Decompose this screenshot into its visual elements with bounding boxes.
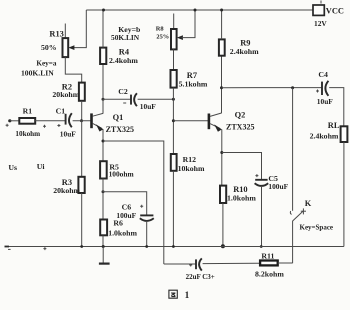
node rail R8 wiper (194, 9, 197, 12)
svg-text:50K.LIN: 50K.LIN (111, 33, 140, 42)
wire C5 to rail (261, 186, 263, 247)
svg-text:100K.LIN: 100K.LIN (21, 68, 54, 77)
ground rail bottom (5, 246, 344, 248)
svg-text:Q2: Q2 (235, 111, 246, 120)
resistor R9 (219, 39, 259, 57)
node rail R9 (220, 9, 223, 12)
wire collector node to C4 (222, 87, 322, 89)
svg-text:ZTX325: ZTX325 (106, 125, 134, 134)
resistor RL (310, 121, 348, 142)
resistor R7 (171, 70, 208, 89)
wire RL bottom to rail right end (343, 142, 345, 247)
capacitor C4 (316, 70, 333, 106)
svg-text:10kohm: 10kohm (178, 164, 205, 173)
svg-text:10uF: 10uF (140, 102, 157, 111)
node rail R6 (102, 245, 105, 248)
node emitter branch (102, 140, 105, 143)
wire VCC top rail (86, 9, 313, 11)
wire R13 bottom to R2 top (65, 57, 81, 83)
potentiometer R8 (156, 10, 195, 49)
svg-text:R13: R13 (49, 30, 63, 39)
resistor R3 (53, 177, 85, 195)
wire Q2 collector up (221, 56, 223, 113)
wire R9 top to rail (221, 10, 223, 39)
resistor R4 (100, 47, 138, 65)
svg-text:10uF: 10uF (60, 129, 77, 138)
node rail R4 (102, 9, 105, 12)
svg-text:R7: R7 (187, 71, 197, 80)
svg-text:2.4kohm: 2.4kohm (230, 47, 259, 56)
transistor Q2 (209, 111, 255, 132)
wire C3 to R11 (203, 262, 261, 264)
wire R2 bottom to base node (81, 101, 83, 121)
resistor R2 (52, 83, 84, 101)
wire Q2 base (173, 120, 208, 122)
wire C6 to rail (146, 221, 148, 247)
svg-text:12V: 12V (314, 19, 327, 28)
svg-text:C4: C4 (318, 70, 328, 79)
resistor R1 (15, 107, 40, 138)
wire R3 bottom to ground rail (81, 193, 83, 247)
wire rail left corner down to R13 wiper (71, 10, 87, 48)
svg-text:25%: 25% (156, 33, 169, 40)
label figure caption (169, 290, 190, 301)
wire emitter branch to C5 (222, 153, 262, 180)
svg-text:100uF: 100uF (268, 182, 288, 191)
svg-text:Ui: Ui (37, 162, 46, 171)
node rail C5 (260, 245, 263, 248)
svg-text:20kohm: 20kohm (52, 90, 79, 99)
wire C4 right to RL (329, 88, 344, 127)
svg-text:K: K (305, 199, 312, 208)
svg-text:1.0kohm: 1.0kohm (227, 193, 256, 202)
svg-text:R4: R4 (119, 47, 130, 56)
svg-text:R1: R1 (23, 107, 33, 116)
svg-text:10kohm: 10kohm (15, 130, 40, 138)
node rail R3 (80, 245, 83, 248)
wire switch bottom down to feedback line (292, 221, 294, 263)
switch K (290, 199, 333, 232)
node R5/R6/C6 junction (102, 190, 105, 193)
node base Q1 junction (80, 119, 83, 122)
svg-text:10uF: 10uF (317, 97, 334, 106)
wire input to R1 (10, 120, 19, 122)
wire R6 to rail (102, 235, 104, 246)
svg-text:R8: R8 (156, 25, 164, 32)
svg-text:C1: C1 (56, 106, 66, 115)
wire switch column (292, 88, 294, 211)
node Q2 base junction (172, 119, 175, 122)
capacitor C5 (255, 174, 289, 191)
node rail R10 (221, 244, 225, 248)
wire emitter branch to feedback column (103, 141, 164, 264)
svg-text:22uF C3+: 22uF C3+ (186, 273, 215, 281)
svg-text:C2: C2 (118, 87, 128, 96)
svg-text:Q1: Q1 (113, 113, 124, 122)
svg-text:R12: R12 (183, 155, 197, 164)
node R4/collector/C2 junction (102, 98, 105, 101)
capacitor C2 (103, 87, 173, 111)
wire junction to C6 (103, 192, 147, 215)
wire R5 bottom to junction (102, 179, 104, 220)
svg-text:2.4kohm: 2.4kohm (109, 56, 138, 65)
ground symbol (99, 247, 110, 264)
wire R1 to C1 (35, 120, 65, 122)
node C2 right junction (172, 98, 175, 101)
resistor R11 (255, 251, 284, 278)
svg-text:R11: R11 (261, 251, 274, 260)
transistor Q1 (92, 113, 135, 134)
svg-text:100ohm: 100ohm (109, 169, 135, 178)
capacitor C6 (116, 203, 153, 221)
capacitor C3 (186, 258, 215, 281)
node C4 branch junction (220, 86, 223, 89)
node rail R12 (172, 245, 175, 248)
svg-text:RL: RL (328, 121, 340, 130)
wire feedback line to C3 (164, 263, 196, 265)
svg-text:2.4kohm: 2.4kohm (310, 132, 339, 141)
node switch column junction (291, 86, 294, 89)
VCC supply symbol (313, 1, 344, 29)
resistor R12 (171, 154, 205, 173)
svg-text:R6: R6 (113, 218, 123, 227)
resistor R6 (100, 218, 137, 237)
resistor R10 (220, 185, 256, 203)
wire R12 bottom to rail (172, 171, 174, 247)
node rail C6 (145, 245, 148, 248)
svg-text:8.2kohm: 8.2kohm (255, 269, 284, 278)
capacitor C1 (6, 106, 77, 138)
node input terminal (8, 119, 11, 122)
svg-text:5.1kohm: 5.1kohm (179, 80, 208, 89)
wire R7 bottom through junctions to R12 (172, 88, 174, 154)
svg-text:20kohm: 20kohm (53, 186, 80, 195)
svg-text:1: 1 (185, 291, 190, 301)
wire Q2 emitter down (221, 129, 223, 185)
svg-text:1.0kohm: 1.0kohm (108, 229, 137, 238)
wire R4 top to rail (102, 10, 104, 48)
resistor R5 (100, 161, 134, 178)
wire Q1 emitter down (102, 129, 104, 161)
wire R10 to rail (222, 203, 224, 247)
wire base node down to R3 (81, 121, 83, 177)
node emitter C5 branch (220, 151, 223, 154)
svg-text:50%: 50% (41, 43, 57, 52)
svg-text:Us: Us (8, 163, 17, 172)
svg-text:ZTX325: ZTX325 (226, 123, 254, 132)
wire R11 to switch column (278, 262, 293, 264)
wire R8 bottom to R7 (173, 49, 175, 70)
svg-text:Key=Space: Key=Space (300, 224, 334, 232)
svg-text:Key=a: Key=a (36, 60, 56, 68)
wire C1 to Q1 base (73, 120, 91, 122)
svg-text:VCC: VCC (326, 7, 344, 16)
potentiometer R13 (21, 24, 74, 78)
wire Q1 collector up (102, 64, 104, 114)
